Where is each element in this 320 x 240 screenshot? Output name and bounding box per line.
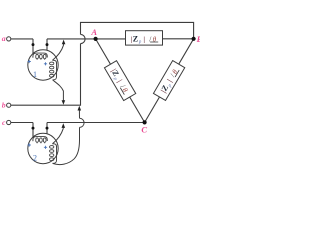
node A (94, 37, 98, 41)
svg-text:B: B (196, 34, 200, 44)
svg-text:b: b (2, 101, 6, 110)
wattmeter 2 plus mark (potential) (44, 146, 47, 149)
wattmeter 1 potential + lead to line a (53, 44, 64, 61)
node B (192, 37, 196, 41)
wattmeter 1 potential coil (50, 60, 57, 80)
wire: line c from coil to node C (47, 122, 145, 124)
terminal a (7, 37, 11, 41)
wattmeter 2 potential - lead sweep to line b (53, 127, 80, 164)
wattmeter 1 current coil leads (32, 39, 34, 56)
svg-text:A: A (90, 27, 97, 37)
terminal c (7, 120, 11, 124)
svg-text:c: c (2, 118, 6, 127)
wattmeter 1 plus mark (current) (28, 60, 31, 63)
terminal b (7, 103, 11, 107)
wire: line a from coil to node A and to top box (47, 38, 126, 40)
wattmeter 2 potential + lead to line c (53, 127, 64, 143)
wattmeter 1 terminal dots (32, 43, 35, 46)
wattmeter 2 terminal dots (32, 127, 35, 130)
node C (143, 120, 147, 124)
wattmeter 2 current coil (33, 137, 47, 144)
wattmeter 2 lead hop over line c (80, 118, 85, 127)
wattmeter 1 potential - lead to line b (53, 80, 64, 101)
wattmeter 1 current coil (33, 53, 47, 60)
wattmeter 1 case (28, 50, 58, 80)
wire: top box to node B (162, 38, 193, 40)
wire: vertical down to line b (11, 44, 81, 106)
wattmeter 2 potential coil (50, 144, 57, 164)
impedance box B-C (153, 61, 184, 101)
svg-text:a: a (2, 34, 6, 43)
wire: delta leg A to C (96, 39, 145, 123)
wattmeter 2 plus mark (current) (28, 143, 31, 146)
svg-text:2: 2 (33, 154, 37, 163)
wattmeter 2 current coil leads (32, 123, 34, 140)
wire: line a from terminal to coil drop (11, 38, 33, 40)
svg-text:1: 1 (33, 70, 37, 79)
wire: node B up to top rail (81, 22, 194, 38)
wire hop over line a (81, 34, 86, 43)
wattmeter 1 plus mark (potential) (44, 62, 47, 65)
impedance box A-C (104, 61, 135, 101)
wattmeter 2 case (28, 133, 58, 163)
wire: line c from terminal to coil drop (11, 122, 33, 124)
impedance box A-B (126, 31, 163, 45)
svg-text:C: C (141, 125, 147, 135)
wire: delta leg B to C (145, 39, 194, 123)
